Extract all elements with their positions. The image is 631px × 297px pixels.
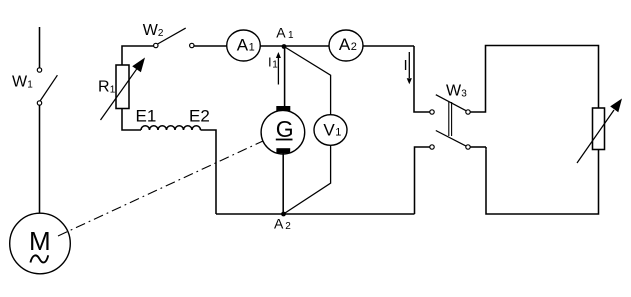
switch W2 right contact: [190, 43, 194, 47]
svg-text:A: A: [339, 35, 351, 54]
current arrow I: [408, 52, 410, 78]
ammeter A1 body: [227, 30, 261, 61]
svg-text:1: 1: [249, 41, 255, 53]
node A2 junction: [281, 212, 286, 217]
svg-text:1: 1: [272, 60, 278, 71]
svg-text:E2: E2: [189, 107, 210, 126]
switch W3 bottom right contact: [466, 145, 470, 149]
svg-text:1: 1: [110, 85, 116, 96]
switch W3 top blade: [436, 95, 467, 111]
switch W1 upper contact: [37, 68, 41, 72]
generator G top brush: [276, 106, 290, 111]
wire A2 to right branch: [363, 45, 414, 47]
wire W2 to ammeter A1: [194, 45, 227, 47]
wire W3 top to load loop: [470, 46, 598, 113]
svg-text:W: W: [446, 83, 462, 100]
resistor R2 adjust arrow: [577, 110, 614, 163]
motor M1 body: [10, 213, 71, 274]
switch W3 linkage: [448, 102, 450, 136]
wire E2 to bottom rail: [201, 130, 217, 214]
switch W1 lower contact: [37, 101, 41, 105]
svg-text:A: A: [276, 25, 286, 41]
switch W3 top right contact: [466, 110, 470, 114]
wire node A1 to generator G: [284, 47, 286, 107]
svg-text:1: 1: [27, 79, 33, 90]
svg-text:I: I: [268, 55, 272, 70]
wire V1 to node A2: [284, 145, 331, 214]
generator G underline: [276, 139, 293, 141]
svg-text:A: A: [237, 35, 249, 54]
switch W2 left contact: [154, 43, 158, 47]
svg-text:R: R: [98, 79, 110, 96]
mechanical coupling shaft M-G: [58, 141, 263, 236]
wire W3 bottom to rail: [415, 147, 430, 214]
switch W1 blade: [40, 75, 57, 100]
svg-text:W: W: [143, 22, 159, 39]
svg-text:M: M: [29, 226, 51, 256]
wire W1 top lead: [39, 27, 41, 68]
wire G to node A2: [282, 153, 284, 214]
svg-text:2: 2: [158, 28, 164, 39]
svg-text:G: G: [276, 116, 294, 142]
current arrow I1: [277, 58, 279, 85]
inductor E1 E2 winding: [141, 126, 201, 130]
wire A1 to node A1: [260, 45, 284, 47]
svg-text:W: W: [12, 73, 28, 90]
svg-text:2: 2: [351, 41, 357, 53]
switch W2 blade: [158, 28, 186, 44]
voltmeter V1 body: [314, 115, 347, 146]
wire load loop right and bottom: [486, 149, 599, 214]
switch W3 bottom left contact: [430, 145, 434, 149]
svg-text:1: 1: [335, 126, 341, 138]
wire node A1 to voltmeter V1: [284, 47, 331, 115]
wire W1 to motor: [39, 105, 41, 213]
wire bottom rail: [216, 213, 415, 215]
resistor R1 body: [116, 65, 129, 109]
svg-text:3: 3: [461, 89, 467, 100]
generator G body: [261, 110, 305, 154]
motor M tilde: [30, 255, 48, 262]
wire node A1 to ammeter A2: [284, 45, 329, 47]
switch W3 bottom blade: [436, 131, 467, 147]
wire R1 bottom to coil E1: [122, 109, 141, 131]
node A1 junction: [282, 44, 287, 49]
switch W3 top left contact: [430, 110, 434, 114]
svg-text:V: V: [323, 120, 335, 139]
wire R1 top: [122, 46, 154, 65]
svg-text:A: A: [274, 216, 284, 232]
resistor R2 load body: [593, 108, 605, 150]
svg-text:2: 2: [285, 221, 291, 232]
svg-text:I: I: [404, 57, 408, 74]
wire right branch down to W3: [414, 46, 430, 112]
ammeter A2 body: [329, 30, 363, 61]
svg-text:E1: E1: [136, 107, 157, 126]
wire load loop to W3 bottom: [470, 146, 486, 148]
resistor R1 adjust arrow: [101, 67, 139, 120]
svg-text:1: 1: [288, 30, 294, 41]
generator G bottom brush: [276, 148, 290, 153]
